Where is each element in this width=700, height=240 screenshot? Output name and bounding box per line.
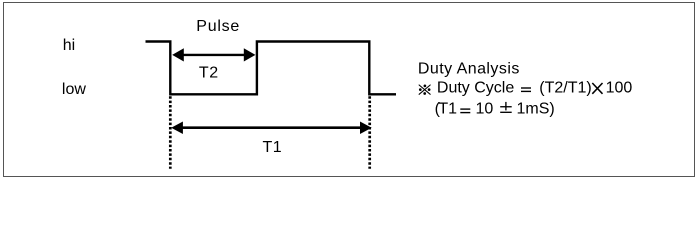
svg-text:T2: T2 bbox=[199, 65, 219, 82]
svg-text:100: 100 bbox=[606, 80, 633, 97]
svg-text:low: low bbox=[62, 81, 86, 98]
svg-text:T1: T1 bbox=[263, 139, 283, 156]
svg-text:hi: hi bbox=[63, 37, 75, 54]
svg-text:T1: T1 bbox=[438, 101, 457, 118]
svg-text:(T2/T1): (T2/T1) bbox=[539, 80, 591, 97]
svg-text:Pulse: Pulse bbox=[196, 18, 240, 35]
svg-text:1mS): 1mS) bbox=[517, 101, 555, 118]
svg-text:Duty Analysis: Duty Analysis bbox=[418, 60, 520, 77]
svg-text:Duty Cycle: Duty Cycle bbox=[437, 80, 514, 97]
svg-text:10: 10 bbox=[476, 101, 494, 118]
